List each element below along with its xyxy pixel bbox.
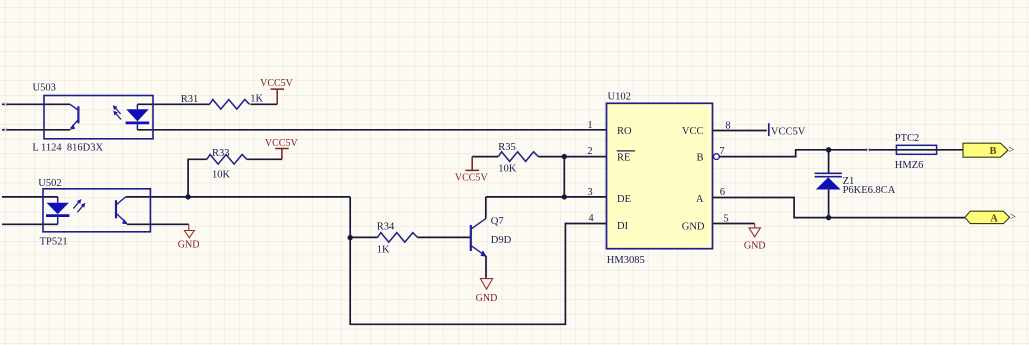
svg-text:VCC5V: VCC5V (265, 138, 299, 149)
svg-text:DE: DE (617, 194, 631, 205)
svg-text:DI: DI (617, 221, 629, 232)
svg-text:1K: 1K (377, 245, 390, 256)
svg-text:HMZ6: HMZ6 (895, 160, 924, 171)
svg-text:GND: GND (744, 240, 766, 251)
svg-text:PTC2: PTC2 (895, 133, 920, 144)
svg-text:A: A (696, 194, 704, 205)
svg-text:R34: R34 (377, 221, 395, 232)
svg-text:HM3085: HM3085 (607, 255, 645, 266)
svg-text:R35: R35 (498, 142, 516, 153)
svg-text:A: A (990, 213, 998, 224)
svg-text:U503: U503 (33, 83, 56, 94)
svg-text:VCC: VCC (682, 126, 704, 137)
svg-text:10K: 10K (212, 170, 231, 181)
svg-text:4: 4 (588, 213, 594, 224)
svg-text:TP521: TP521 (40, 237, 68, 248)
svg-text:GND: GND (476, 293, 498, 304)
svg-text:P6KE6.8CA: P6KE6.8CA (843, 185, 896, 196)
svg-text:6: 6 (720, 187, 725, 198)
svg-text:>: > (1010, 212, 1016, 223)
svg-text:1: 1 (587, 120, 592, 131)
svg-text:L 1124 816D3X: L 1124 816D3X (32, 142, 103, 153)
svg-text:10K: 10K (498, 163, 517, 174)
svg-text:D9D: D9D (491, 235, 512, 246)
svg-text:U502: U502 (38, 178, 61, 189)
svg-text:3: 3 (587, 187, 592, 198)
svg-text:1K: 1K (250, 94, 263, 105)
svg-text:2: 2 (587, 146, 592, 157)
svg-text:5: 5 (723, 214, 728, 225)
svg-text:B: B (696, 152, 703, 163)
svg-text:RE: RE (617, 152, 630, 163)
svg-text:GND: GND (682, 221, 705, 232)
svg-text:8: 8 (725, 120, 730, 131)
svg-text:VCC5V: VCC5V (260, 78, 294, 89)
svg-text:Q7: Q7 (491, 216, 504, 227)
svg-text:GND: GND (178, 240, 200, 251)
svg-text:RO: RO (617, 126, 632, 137)
svg-text:R31: R31 (181, 94, 199, 105)
svg-text:U102: U102 (608, 92, 631, 103)
svg-text:VCC5V: VCC5V (455, 173, 489, 184)
svg-text:VCC5V: VCC5V (771, 127, 806, 138)
svg-text:R33: R33 (212, 148, 230, 159)
svg-text:7: 7 (719, 146, 724, 157)
svg-text:B: B (989, 146, 996, 157)
svg-text:>: > (1009, 145, 1015, 156)
